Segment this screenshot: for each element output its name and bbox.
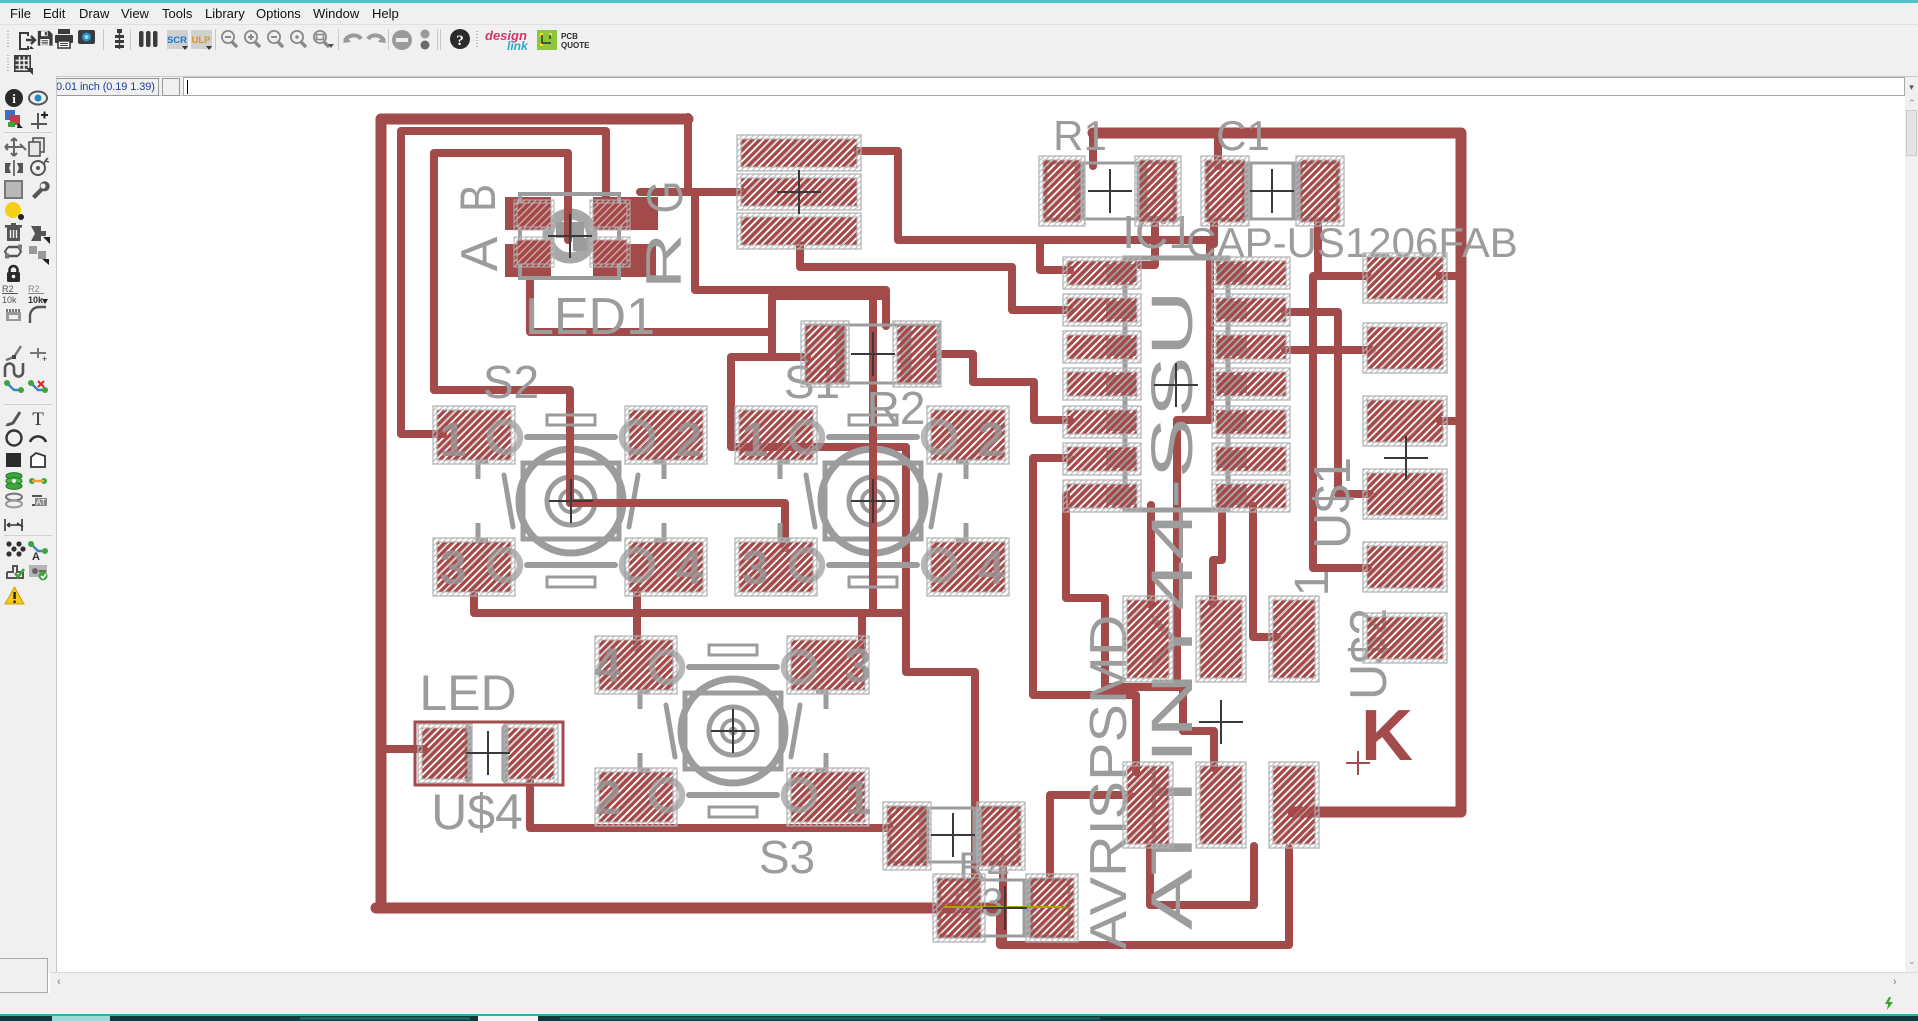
button contact rings bbox=[440, 414, 703, 595]
svg-text:3: 3 bbox=[440, 542, 467, 595]
pad bbox=[737, 213, 861, 249]
pad bbox=[1063, 331, 1141, 363]
wire redraw LED1 center bbox=[564, 205, 572, 240]
pad bbox=[625, 406, 707, 464]
pad bbox=[1063, 368, 1141, 400]
svg-text:C1: C1 bbox=[1216, 112, 1270, 159]
pad bbox=[1363, 323, 1447, 373]
svg-text:link: link bbox=[507, 39, 529, 53]
svg-text:3: 3 bbox=[845, 640, 872, 693]
wire stub to R1 left pad bbox=[1089, 133, 1097, 166]
pad bbox=[1123, 762, 1173, 848]
svg-text:10k: 10k bbox=[28, 295, 44, 305]
wire IC R7 down to ISP pad3 bbox=[1253, 506, 1277, 637]
wire IC L6 down to ISP pad4 bbox=[1033, 458, 1136, 772]
pad bbox=[1212, 294, 1290, 326]
pad bbox=[1196, 762, 1246, 848]
menu bar bbox=[0, 3, 1918, 24]
svg-text:4: 4 bbox=[676, 542, 703, 595]
pad bbox=[625, 538, 707, 596]
svg-text:2: 2 bbox=[595, 772, 622, 825]
wire left rail stub to U$4 left pad bbox=[381, 745, 424, 753]
silk resistor outline bbox=[806, 325, 939, 383]
svg-text:S2: S2 bbox=[483, 356, 539, 408]
wire U$1 row1 right stub bbox=[1440, 272, 1461, 280]
svg-text:4: 4 bbox=[595, 640, 622, 693]
svg-text:2: 2 bbox=[676, 414, 703, 467]
wire R4 right pad down through R3 to bottom rail bbox=[999, 866, 1007, 945]
pad bbox=[1026, 874, 1078, 942]
pad bbox=[1363, 613, 1447, 663]
wire A riser and over bbox=[772, 296, 886, 357]
wire IC bottom to ISP pad1 bbox=[1147, 505, 1155, 605]
silk resistor outline bbox=[940, 880, 1069, 936]
svg-text:R2: R2 bbox=[2, 284, 14, 294]
wire C1-left rail down between IC columns bbox=[1177, 240, 1210, 687]
pad bbox=[1123, 596, 1173, 682]
wire outermost left/top rail bbox=[381, 119, 688, 906]
svg-text:PCB: PCB bbox=[561, 32, 578, 41]
silk resistor outline bbox=[1208, 163, 1337, 219]
pad bbox=[1196, 596, 1246, 682]
pad bbox=[737, 135, 861, 171]
wire resistor right pad to IC pin5 bbox=[933, 354, 1070, 420]
pad bbox=[1212, 257, 1290, 289]
svg-text:1: 1 bbox=[742, 414, 769, 467]
svg-text:+: + bbox=[42, 354, 47, 364]
wire G-pad to connector pad2 bbox=[640, 188, 743, 196]
svg-text:U$1: U$1 bbox=[1304, 457, 1362, 549]
svg-text:LED1: LED1 bbox=[525, 288, 655, 346]
right scrollbar bbox=[1905, 96, 1918, 972]
wire U$1 row3 right stub bbox=[1440, 417, 1461, 425]
svg-text:10k: 10k bbox=[2, 295, 17, 305]
wire branch down to S3 pad3 bbox=[858, 613, 866, 648]
pad bbox=[1063, 480, 1141, 512]
wire LED1 center stub bbox=[564, 200, 572, 238]
wire R1 right pad to IC L1 bbox=[1140, 222, 1155, 265]
pad bbox=[1063, 294, 1141, 326]
LED1 pad B bbox=[514, 200, 554, 230]
toolbar row 2 bbox=[0, 53, 1918, 76]
wire redraw through S2 center bbox=[570, 430, 660, 503]
U$4 LED outline bbox=[415, 722, 563, 785]
pad bbox=[1063, 257, 1141, 289]
bottom window strip bbox=[0, 1014, 1918, 1021]
pad bbox=[1063, 406, 1141, 438]
wire branch to IC L1 bbox=[1040, 240, 1070, 270]
wire bottom long rail bbox=[376, 903, 1001, 914]
pad bbox=[1212, 443, 1290, 475]
pad bbox=[1363, 542, 1447, 592]
wire connector pad3 to IC L2 bbox=[800, 245, 1070, 310]
svg-text:A: A bbox=[451, 236, 509, 271]
LED1 pad G bbox=[590, 200, 630, 230]
wire IC R3 to U$1 row2 bbox=[1285, 346, 1372, 354]
svg-text:S3: S3 bbox=[759, 831, 815, 883]
wire outer nest from S2 pad1 up over to 3-pad connector bbox=[401, 131, 606, 434]
pad bbox=[735, 406, 817, 464]
LED1 pad R bbox=[590, 237, 630, 267]
wire IC R7 corner to ISP pad2 bbox=[1213, 502, 1222, 604]
svg-text:1: 1 bbox=[440, 414, 467, 467]
svg-text:i: i bbox=[12, 91, 16, 106]
button silk bbox=[821, 449, 925, 553]
svg-text:LED: LED bbox=[419, 665, 516, 721]
wire stub rail to C1 left pad bbox=[1214, 133, 1222, 166]
airwire R3 bbox=[945, 906, 1065, 908]
svg-text:R1: R1 bbox=[1053, 112, 1107, 159]
svg-text:AT: AT bbox=[36, 498, 46, 507]
wire bottom rail jog to ISP pad6 bbox=[1000, 848, 1289, 945]
wire redraw through S1 center bbox=[869, 430, 877, 580]
LED1 pad A bbox=[514, 237, 554, 267]
svg-text:1: 1 bbox=[1286, 570, 1339, 597]
svg-text:1: 1 bbox=[845, 772, 872, 825]
pad bbox=[1363, 469, 1447, 519]
pad bbox=[1363, 396, 1447, 446]
button contact rings bbox=[742, 414, 1005, 595]
wire S2 pad3 bus to S1 area bbox=[474, 593, 906, 613]
left sidebar bbox=[0, 76, 57, 972]
pad bbox=[595, 636, 677, 694]
button silk bbox=[519, 449, 623, 553]
pad bbox=[1063, 443, 1141, 475]
svg-text:B: B bbox=[450, 184, 506, 212]
wire C1 right pad down bbox=[1318, 222, 1368, 276]
wire resistor mid vertical to S-buttons bus bbox=[869, 290, 877, 613]
LED1 silkscreen bbox=[520, 194, 619, 278]
pad bbox=[927, 406, 1009, 464]
silk resistor outline bbox=[890, 808, 1018, 862]
svg-text:SCR: SCR bbox=[167, 35, 187, 46]
svg-text:A: A bbox=[32, 551, 40, 563]
pad bbox=[1269, 762, 1319, 848]
pad bbox=[977, 802, 1025, 870]
wire A-pad down right bbox=[530, 276, 772, 332]
svg-text:?: ? bbox=[456, 33, 464, 49]
svg-text:R: R bbox=[636, 233, 692, 289]
wire C1-right long vertical down to U$2 row1 bbox=[1313, 276, 1368, 568]
wire G net down to resistor right pad bbox=[695, 192, 886, 326]
svg-text:U$4: U$4 bbox=[431, 784, 523, 840]
wire S2 pad4 down to S3 pad4 bbox=[633, 590, 641, 648]
IC1 pin legs silk bbox=[1106, 264, 1136, 282]
wire IC L7 down to ISP pad5 bbox=[1066, 495, 1214, 768]
title bar teal sliver bbox=[0, 0, 1918, 3]
wire ISP pad4 bottom to pad5 bottom bbox=[1150, 846, 1254, 905]
pad bbox=[1039, 156, 1085, 226]
pad bbox=[787, 768, 869, 826]
pad bbox=[1212, 406, 1290, 438]
wire third nest: LED1 top stub, over-left-down to S2 center, to S1 pad3 bbox=[434, 153, 785, 548]
wire connector pad1 to VCC rail y240 bbox=[858, 151, 1210, 240]
wire rail drop to connector pad2 bbox=[688, 117, 743, 192]
pad bbox=[737, 174, 861, 210]
pad bbox=[927, 538, 1009, 596]
pad bbox=[1135, 156, 1181, 226]
bottom scrollbar bbox=[50, 972, 1918, 993]
pad bbox=[883, 802, 931, 870]
svg-text:R2: R2 bbox=[28, 284, 40, 294]
svg-text:2: 2 bbox=[978, 414, 1005, 467]
wire top rail right side bbox=[1093, 133, 1461, 812]
LED1 copper blocks bbox=[505, 197, 551, 230]
svg-text:QUOTE: QUOTE bbox=[561, 41, 590, 50]
coord bar bbox=[0, 76, 1918, 96]
bottom-left corner box bbox=[0, 958, 48, 993]
pad bbox=[893, 321, 941, 387]
origin crosses bbox=[777, 170, 821, 214]
wire IC R2 to U$1 row4 bbox=[1285, 312, 1370, 494]
pad bbox=[1212, 368, 1290, 400]
wire U$4 right pad down to R4 left pad bbox=[530, 779, 890, 828]
status bar bbox=[0, 993, 1918, 1014]
pad bbox=[1363, 253, 1447, 303]
pad bbox=[735, 538, 817, 596]
button contact rings bbox=[595, 640, 872, 825]
pad bbox=[504, 724, 558, 783]
svg-text:R2: R2 bbox=[867, 382, 926, 434]
wire resistor left pad to R3 left pad long route bbox=[731, 357, 975, 880]
pad bbox=[1212, 480, 1290, 512]
pad bbox=[1296, 156, 1344, 226]
svg-text:ULP: ULP bbox=[192, 35, 212, 46]
svg-text:G: G bbox=[637, 181, 693, 214]
pad bbox=[433, 538, 515, 596]
pad bbox=[595, 768, 677, 826]
K origin cross bbox=[1346, 751, 1370, 775]
button silk bbox=[681, 679, 785, 783]
svg-text:3: 3 bbox=[742, 542, 769, 595]
IC1 outline silk bbox=[1125, 258, 1228, 510]
pad bbox=[1269, 596, 1319, 682]
silk resistor outline bbox=[1046, 163, 1174, 219]
toolbar row 1 bbox=[0, 24, 1918, 53]
pad bbox=[1212, 331, 1290, 363]
wire C1 left pad bottom stub bbox=[1210, 222, 1218, 244]
pad bbox=[433, 406, 515, 464]
wire R3 right pad up to ISP pad4 bbox=[1050, 795, 1130, 878]
pad bbox=[933, 874, 985, 942]
svg-text:T: T bbox=[32, 409, 44, 430]
svg-text:4: 4 bbox=[978, 542, 1005, 595]
pad bbox=[801, 321, 849, 387]
pad bbox=[1201, 156, 1249, 226]
pad bbox=[787, 636, 869, 694]
pad bbox=[418, 724, 472, 783]
